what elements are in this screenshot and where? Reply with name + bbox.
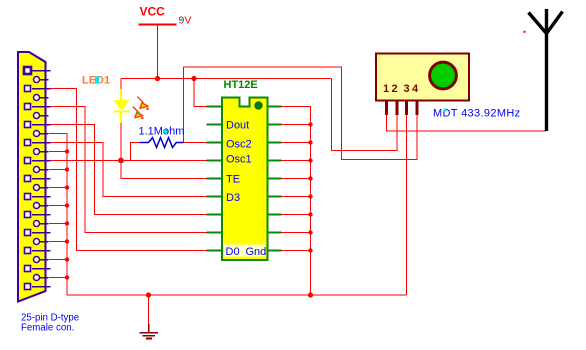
svg-text:9V: 9V [179, 15, 192, 27]
power symbol bar [139, 24, 177, 26]
svg-text:4: 4 [412, 83, 419, 95]
connector square pins [24, 67, 31, 290]
wire LED cathode down to node [120, 123, 122, 161]
wire TX pin3 to ground rail [406, 113, 408, 296]
junction ground rail / address bus [308, 292, 313, 297]
wire resistor left loop [131, 143, 140, 161]
value label 9V [179, 15, 192, 27]
transmitter module TX1 body [376, 54, 469, 101]
TX pins [387, 101, 418, 116]
LED LED1 [114, 89, 130, 124]
wire sq6 to Osc1 [49, 160, 208, 162]
svg-text:Dout: Dout [226, 120, 249, 132]
wires ground pins to bus [49, 152, 67, 278]
wire sq3 to row8 [49, 107, 208, 233]
connector J1 body (25-pin D-type) [18, 52, 46, 302]
IC right pin stubs [268, 107, 282, 251]
wire TX pin1 to antenna [387, 113, 547, 132]
junction VCC stem [155, 76, 160, 81]
svg-text:Osc1: Osc1 [226, 154, 252, 166]
IC pin1 marker dot [254, 101, 262, 109]
wire VCC stem [157, 25, 159, 79]
svg-text:1: 1 [383, 83, 389, 95]
svg-text:D0: D0 [226, 246, 240, 258]
svg-text:VCC: VCC [140, 5, 166, 19]
wire VCC rail drop to TX pin2 [332, 79, 398, 151]
TX label MDT 433.92MHz [433, 108, 521, 120]
connector round pins [34, 77, 40, 281]
junctions address bus [308, 122, 312, 252]
IC left pin stubs [207, 107, 223, 251]
svg-text:TE: TE [226, 174, 240, 186]
wires U1 right pins to address bus [282, 125, 311, 251]
resistor R1 zigzag [140, 138, 184, 148]
junction ground rail / symbol [146, 292, 151, 297]
wire A: Osc2 node to TX pin4 [184, 67, 418, 160]
antenna [529, 9, 563, 131]
svg-text:Female con.: Female con. [21, 323, 74, 334]
LED light arrow 2 [133, 107, 144, 120]
wire VCC rail to LED anode [120, 79, 122, 90]
resistor value label 1.1Mohm [139, 126, 185, 138]
connector square pin stubs [32, 71, 51, 287]
connector label [21, 313, 79, 334]
wire VDD feed to U1 pin18 [194, 79, 208, 107]
wire resistor right lead to Osc2 [184, 142, 208, 144]
wire VCC rail (wire B) [121, 78, 332, 80]
svg-text:Osc2: Osc2 [226, 139, 252, 151]
wire node to TE pin [121, 161, 208, 179]
stray red dot [524, 31, 526, 33]
junction LED/Osc1 node [118, 158, 124, 164]
connector round pin stubs [40, 80, 49, 278]
svg-text:3: 3 [404, 83, 410, 95]
wire sq4 to row7 [49, 125, 208, 215]
junction VDD feed [191, 76, 196, 81]
ground symbol [140, 295, 159, 338]
svg-text:Gnd: Gnd [246, 246, 267, 258]
junctions ground bus [65, 149, 69, 279]
wire ground rail [67, 294, 407, 296]
LED1 label [82, 75, 110, 87]
svg-text:2: 2 [392, 83, 398, 95]
IC pin labels [224, 120, 266, 259]
power VCC label [140, 5, 166, 19]
ground bus vertical [49, 134, 67, 296]
wire sq2 to D0 row [49, 89, 208, 251]
wire U1 right pin row1 to address bus [282, 107, 311, 296]
wire sq5 to D3 [49, 143, 208, 197]
svg-text:HT12E: HT12E [224, 79, 258, 91]
transmitter TX1 green circle [430, 62, 457, 89]
IC U1 body [222, 98, 268, 261]
TX pin number labels [383, 83, 419, 95]
LED light arrow 1 [137, 97, 149, 111]
svg-text:1.1Mohm: 1.1Mohm [139, 126, 185, 138]
svg-text:D3: D3 [226, 192, 240, 204]
